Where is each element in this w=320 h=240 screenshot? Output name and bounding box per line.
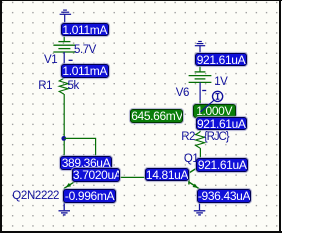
- wire V1 top pin: [63, 24, 65, 42]
- wire V6 top pin: [199, 54, 201, 72]
- wire R1 to junction and down to Q collector: [63, 94, 65, 165]
- V6 minus marker: [202, 90, 206, 92]
- bias current label 921.61uA (top right): [195, 53, 247, 67]
- left emitter pin: [63, 188, 65, 203]
- part name Q1: [184, 154, 198, 164]
- page border top: [0, 0, 282, 1]
- node junction at R1/Q2N2222/base branch: [61, 136, 66, 141]
- V1 minus marker: [69, 59, 73, 61]
- ground (left): [59, 203, 71, 215]
- bias current label 389.36uA: [60, 156, 111, 170]
- V1 bottom pin: [63, 52, 65, 65]
- ground (right): [194, 203, 206, 215]
- value Q2N2222: [12, 191, 59, 201]
- battery V6: [189, 72, 212, 83]
- bias current label 3.7020uA: [72, 168, 120, 182]
- wire V6 to R2: [199, 100, 201, 132]
- bias voltage label 645.66mV: [130, 109, 183, 123]
- bias current label -0.996mA: [63, 189, 117, 203]
- bias current label 921.61uA (mid right): [196, 117, 247, 131]
- value 1V: [214, 77, 227, 87]
- Q1 emitter pin: [199, 190, 201, 203]
- bias current label 921.61uA (at Q1): [196, 158, 248, 172]
- bias current label -936.43uA: [197, 189, 251, 203]
- bias current label 1.011mA (below V1): [61, 64, 109, 77]
- resistor R1: [59, 78, 68, 94]
- bias voltage label 1.000V: [193, 104, 236, 117]
- page border bottom: [0, 231, 282, 233]
- bias current label 1.011mA (top): [61, 23, 109, 36]
- resistor R2: [196, 132, 205, 148]
- wire battery to R1: [63, 65, 65, 79]
- battery V1: [53, 42, 75, 52]
- bias current label 14.81uA: [145, 168, 189, 182]
- base wire between transistors: [77, 176, 189, 178]
- value {RJC}: [204, 132, 229, 142]
- part name R2: [181, 132, 195, 142]
- part name R1: [38, 81, 52, 91]
- power symbol (flipped ground) top of V1: [60, 10, 72, 23]
- transistor Q2N2222 (left, mirrored): [64, 164, 77, 188]
- part name V1: [44, 55, 57, 65]
- V6 bottom pin: [199, 82, 201, 100]
- value 5k: [68, 81, 79, 91]
- wire junction to right: [64, 138, 95, 177]
- wire R2 to Q1 collector: [199, 148, 201, 166]
- part name V6: [176, 88, 189, 98]
- power symbol (flipped ground) top of V6: [195, 42, 205, 54]
- page border right: [279, 0, 281, 233]
- value 5.7V: [74, 45, 96, 55]
- transistor Q1: [189, 166, 201, 190]
- page border left: [0, 0, 2, 233]
